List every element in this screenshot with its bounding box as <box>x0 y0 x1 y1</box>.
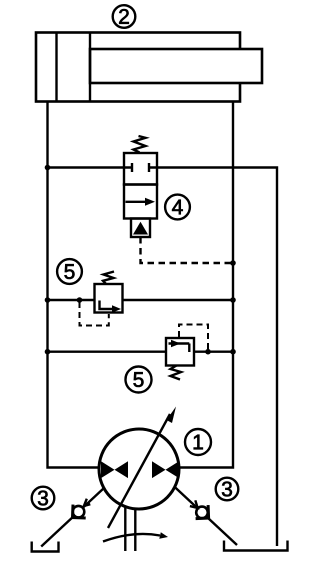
label 3 (left) <box>32 487 55 510</box>
node: junction relief line 2 / rod-side rail <box>230 349 236 355</box>
cylinder rod <box>90 49 262 83</box>
pump P1 circle <box>99 429 179 509</box>
node: junction pilot V1 / relief line 1 <box>77 297 83 303</box>
check valve CV-left flow arrowhead <box>84 499 90 506</box>
label 5 (upper) <box>57 259 82 284</box>
wire: valve line right segment to tank drop <box>157 168 277 547</box>
cylinder C (body) <box>36 33 240 102</box>
valve U4 pilot box <box>131 219 150 238</box>
check valve CV-left seat <box>73 505 86 518</box>
check valve CV-left ball <box>73 506 85 518</box>
label 3 (right) <box>216 478 239 501</box>
label 5 (lower) <box>126 367 152 393</box>
pump P1 right bowtie <box>152 461 179 478</box>
pump P1 variable displacement arrow <box>108 407 176 529</box>
wire: relief line 2 <box>48 351 234 353</box>
wire: rod-side line from cylinder down to pump right <box>179 102 234 468</box>
node: junction left rail / valve line <box>45 165 51 171</box>
relief valve V2 pilot wire (dashed) <box>179 325 208 350</box>
node: junction pilot / rod-side rail <box>230 260 236 266</box>
relief valve V1 body <box>95 284 123 313</box>
label 2 <box>113 5 136 28</box>
relief valve V2 body <box>166 338 194 366</box>
pump P1 shaft <box>125 507 135 552</box>
check valve CV-right flow arrowhead <box>190 500 198 508</box>
wire: valve line left segment <box>48 166 125 168</box>
wire: suction line left (tank to pump) <box>41 488 104 547</box>
node: junction left rail / relief line 2 <box>45 349 51 355</box>
pilot wire (dashed) from valve U4 to rod-side rail <box>141 237 232 263</box>
node: junction relief line 1 / rod-side rail <box>230 297 236 303</box>
label 4 <box>165 195 190 220</box>
cylinder piston <box>57 33 91 102</box>
relief valve V1 pilot wire (dashed) <box>80 302 109 326</box>
valve U4 spring <box>134 136 146 153</box>
valve U4 body box 1 (blocked position) <box>124 153 157 185</box>
relief valve V1 spring <box>103 272 114 285</box>
pump P1 rotation arrow <box>103 532 168 541</box>
valve U4 body box 2 (flow position arrow) <box>124 185 157 219</box>
node: junction pilot V2 / relief line 2 <box>205 349 211 355</box>
wire: cap-side line from cylinder down-left rail <box>48 102 100 468</box>
tank (right) <box>224 541 288 551</box>
check valve CV-right ball <box>196 507 208 519</box>
pump P1 left bowtie <box>101 461 128 478</box>
tank (left) <box>32 542 59 552</box>
label 1 <box>185 429 211 455</box>
node: junction left rail / relief line 1 <box>45 297 51 303</box>
relief valve V2 spring <box>171 366 182 380</box>
wire: relief line 1 <box>48 299 234 301</box>
check valve CV-right seat <box>196 505 209 518</box>
wire: suction line right (tank to pump) <box>175 487 237 545</box>
